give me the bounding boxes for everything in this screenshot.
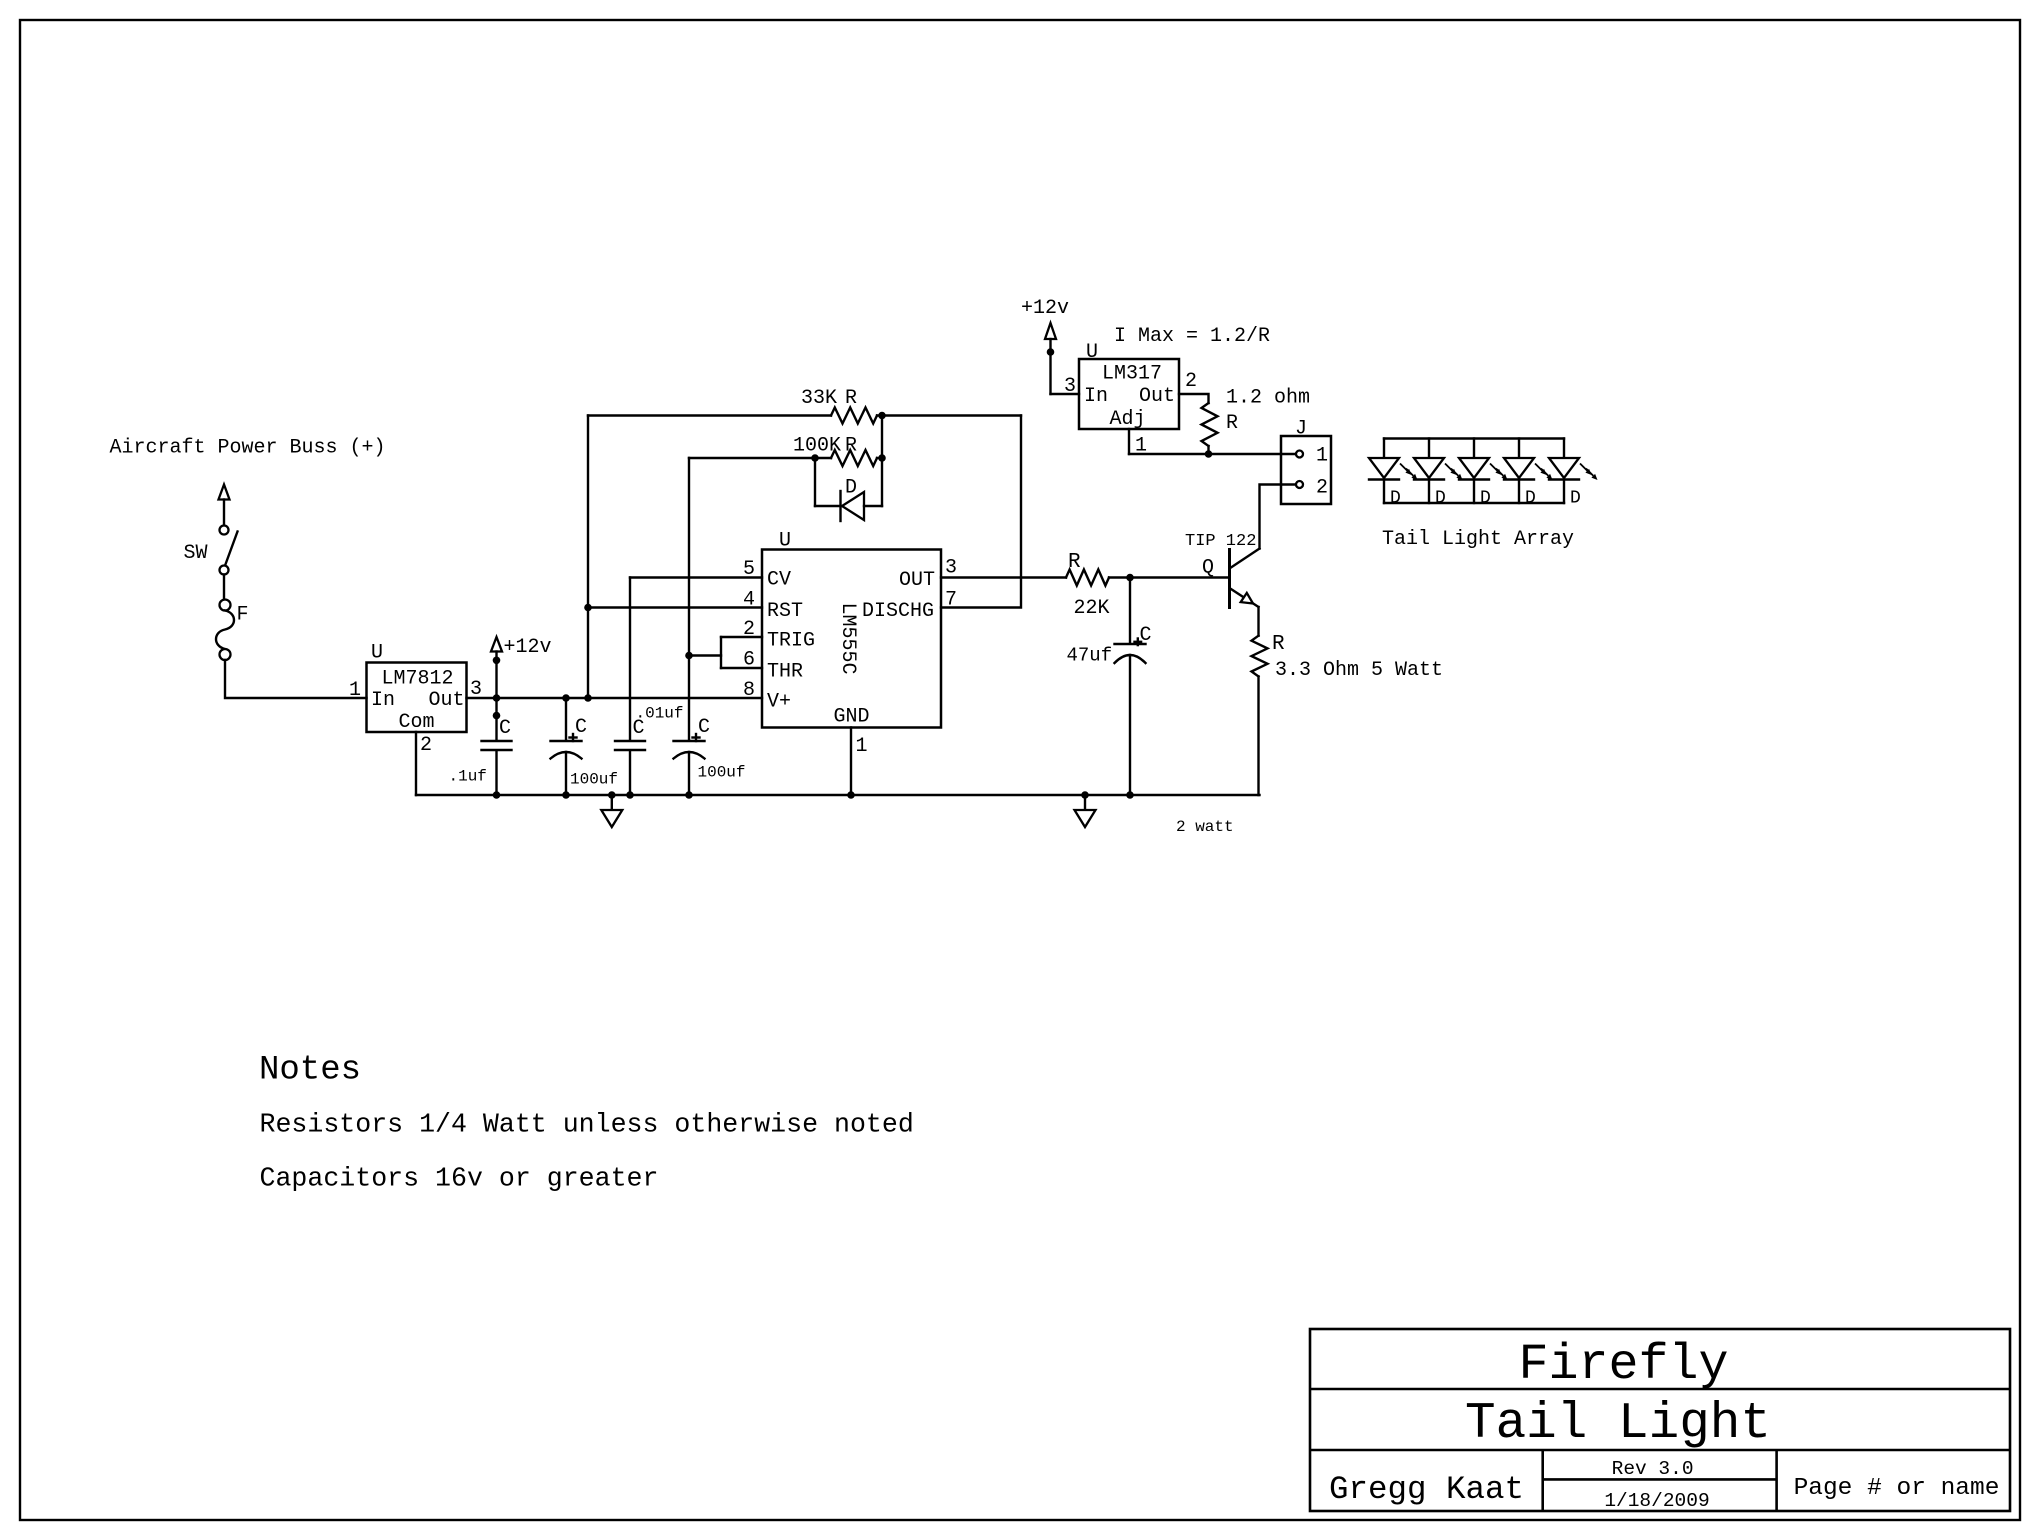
junction .1uf at rail: [493, 791, 501, 799]
wire: DISCHG to resistor leg: [941, 416, 1021, 608]
junction TRIG/THR tee: [685, 652, 693, 660]
resistor R 33K: [588, 387, 1021, 424]
wire: bracket tee to timing cap: [689, 654, 721, 656]
svg-text:47uf: 47uf: [1067, 645, 1113, 667]
fuse F: [216, 600, 249, 661]
wire: +12v to LM317 In: [1051, 393, 1080, 395]
svg-text:D: D: [1570, 489, 1581, 509]
wire: TRIG/THR bracket: [720, 637, 722, 668]
resistor R 100K: [689, 435, 882, 467]
wire: 22K to transistor base: [1109, 576, 1228, 578]
wire: 3.3 ohm to ground rail: [1257, 677, 1259, 796]
wire: 33K left leg down to +12v rail: [587, 416, 589, 699]
svg-text:C: C: [698, 716, 710, 739]
capacitor C .1uf: [449, 698, 512, 795]
svg-text:C: C: [499, 717, 511, 740]
power arrow (aircraft buss input): [219, 485, 230, 526]
svg-text:33K: 33K: [801, 387, 837, 410]
svg-text:Capacitors 16v or greater: Capacitors 16v or greater: [260, 1164, 659, 1194]
wire: switch to fuse: [223, 575, 225, 600]
wire: emitter to 3.3 ohm: [1257, 607, 1259, 636]
svg-text:Notes: Notes: [259, 1052, 361, 1090]
svg-text:LM317: LM317: [1102, 363, 1162, 386]
svg-text:1/18/2009: 1/18/2009: [1604, 1490, 1709, 1512]
connector J: [1281, 418, 1331, 505]
junction RST tee: [584, 604, 592, 612]
svg-text:100uf: 100uf: [698, 764, 746, 782]
svg-text:D: D: [1525, 489, 1536, 509]
svg-text:D: D: [845, 477, 857, 500]
wire: RST pin: [588, 606, 762, 608]
svg-text:V+: V+: [767, 691, 791, 714]
svg-text:I Max = 1.2/R: I Max = 1.2/R: [1114, 325, 1270, 348]
svg-text:8: 8: [743, 679, 755, 702]
power symbol +12v (at regulator output): [491, 636, 552, 698]
svg-text:3.3 Ohm 5 Watt: 3.3 Ohm 5 Watt: [1275, 659, 1443, 682]
svg-text:Tail Light Array: Tail Light Array: [1382, 528, 1574, 551]
svg-text:Adj: Adj: [1109, 408, 1145, 431]
svg-text:In: In: [371, 689, 395, 712]
capacitor C 47uf: [1067, 578, 1152, 796]
wire: Adj node to J pin 1: [1129, 453, 1296, 455]
svg-text:U: U: [1086, 341, 1098, 364]
svg-text:Resistors 1/4 Watt unless othe: Resistors 1/4 Watt unless otherwise note…: [260, 1110, 914, 1140]
wire: 33K/100K/diode right leg: [881, 416, 883, 507]
wire: LM7812 Out to 555 V+ (+12v rail): [467, 697, 763, 699]
title block frame: [1310, 1329, 2010, 1511]
wire: LM317 Adj down: [1128, 429, 1130, 454]
wire: LED array top bus: [1384, 437, 1564, 439]
svg-text:LM7812: LM7812: [382, 668, 454, 691]
ground symbol (right): [1075, 795, 1096, 827]
svg-text:SW: SW: [184, 542, 208, 565]
regulator U LM7812: [367, 642, 467, 735]
junction 100K left (diode tee): [811, 454, 819, 462]
wire: THR pin: [721, 667, 762, 669]
power symbol +12v (LM317 input): [1021, 297, 1069, 394]
junction Adj / 1.2 ohm: [1205, 450, 1213, 458]
svg-text:.01uf: .01uf: [636, 705, 684, 723]
svg-text:3: 3: [945, 557, 957, 580]
svg-text:THR: THR: [767, 661, 803, 684]
junction 47uf at rail: [1126, 791, 1134, 799]
svg-text:F: F: [237, 604, 249, 627]
resistor R 1.2 ohm: [1202, 387, 1311, 447]
svg-text:Com: Com: [399, 711, 435, 734]
svg-text:Tail Light: Tail Light: [1465, 1396, 1771, 1453]
svg-text:Rev 3.0: Rev 3.0: [1612, 1458, 1694, 1480]
svg-text:.1uf: .1uf: [449, 768, 487, 786]
svg-text:Out: Out: [1139, 385, 1175, 408]
svg-text:R: R: [1226, 412, 1238, 435]
svg-text:R: R: [1272, 633, 1285, 656]
svg-text:D: D: [1480, 489, 1491, 509]
wire: LED array bottom bus: [1384, 502, 1564, 504]
capacitor C 100uf (first, polarized): [551, 698, 619, 795]
junction ground stub right: [1081, 791, 1089, 799]
wire: LM7812 Com down to ground rail: [415, 732, 417, 795]
svg-text:2 watt: 2 watt: [1176, 818, 1234, 836]
svg-text:LM555C: LM555C: [836, 602, 859, 674]
junction .01uf at rail: [626, 791, 634, 799]
junction 22K / 47uf: [1126, 574, 1134, 582]
capacitor C .01uf: [615, 578, 684, 796]
svg-text:2: 2: [1185, 370, 1197, 393]
svg-text:1: 1: [349, 679, 361, 702]
svg-text:Q: Q: [1202, 557, 1214, 580]
svg-text:+12v: +12v: [504, 636, 552, 659]
svg-text:TIP 122: TIP 122: [1185, 532, 1256, 551]
svg-text:D: D: [1435, 489, 1446, 509]
wire: 1.2 ohm bottom to Adj node: [1207, 446, 1209, 454]
svg-text:In: In: [1084, 385, 1108, 408]
svg-text:GND: GND: [833, 706, 869, 729]
wire: LM317 Out to 1.2 ohm: [1179, 394, 1209, 403]
switch SW: [184, 526, 238, 575]
svg-text:+12v: +12v: [1021, 297, 1069, 320]
svg-text:Page # or name: Page # or name: [1794, 1475, 2000, 1502]
LED D5: [1549, 439, 1598, 509]
svg-text:22K: 22K: [1074, 597, 1110, 620]
wire: TRIG pin: [721, 636, 762, 638]
junction 33K leg at +12v rail: [584, 694, 592, 702]
svg-text:3: 3: [1064, 375, 1076, 398]
LED D2: [1414, 439, 1463, 509]
svg-text:RST: RST: [767, 600, 803, 623]
wire: CV pin: [630, 576, 762, 578]
resistor R 22K: [1066, 551, 1110, 620]
junction below +12v arrow (LM317): [1047, 348, 1055, 356]
junction below +12v arrow: [493, 657, 501, 665]
junction 100uf#1 at +12v rail: [562, 694, 570, 702]
junction 33K right: [878, 412, 886, 420]
junction ground stub left: [608, 791, 616, 799]
svg-text:C: C: [1140, 624, 1152, 647]
junction at Out tee: [493, 694, 501, 702]
resistor R 3.3 Ohm 5 Watt: [1252, 633, 1444, 682]
svg-text:Aircraft Power Buss (+): Aircraft Power Buss (+): [110, 437, 386, 460]
svg-text:TRIG: TRIG: [767, 630, 815, 653]
svg-text:D: D: [1390, 489, 1401, 509]
svg-text:1: 1: [856, 735, 868, 758]
svg-text:CV: CV: [767, 569, 791, 592]
svg-text:1: 1: [1316, 445, 1328, 468]
svg-text:2: 2: [1316, 477, 1328, 500]
svg-text:1.2 ohm: 1.2 ohm: [1226, 387, 1310, 410]
wire: ground rail: [416, 794, 1260, 796]
wire: fuse to LM7812 In: [225, 660, 367, 698]
junction GND pin at rail: [847, 791, 855, 799]
timer U LM555C: [762, 530, 941, 729]
LED D1: [1369, 439, 1418, 509]
LED D3: [1459, 439, 1508, 509]
svg-text:C: C: [575, 716, 587, 739]
regulator U LM317: [1079, 341, 1179, 431]
svg-text:2: 2: [420, 734, 432, 757]
svg-text:Out: Out: [429, 689, 465, 712]
wire: collector to J pin 2: [1260, 485, 1297, 549]
svg-text:Firefly: Firefly: [1518, 1337, 1728, 1394]
svg-text:OUT: OUT: [899, 569, 935, 592]
capacitor C 100uf (second, polarized, timing): [674, 458, 746, 795]
junction 100uf#2 at rail: [685, 791, 693, 799]
wire: 555 OUT to 22K: [941, 576, 1066, 578]
wire: GND pin to rail: [850, 728, 852, 796]
transistor Q TIP 122: [1185, 532, 1260, 609]
svg-text:100uf: 100uf: [570, 771, 618, 789]
diode D: [815, 458, 882, 521]
svg-text:U: U: [371, 642, 383, 665]
junction above C .1uf: [493, 712, 501, 720]
LED D4: [1504, 439, 1553, 509]
svg-text:Gregg Kaat: Gregg Kaat: [1329, 1471, 1524, 1508]
ground symbol (left): [601, 795, 622, 827]
junction 100uf#1 at ground rail: [562, 791, 570, 799]
junction 100K right: [878, 454, 886, 462]
svg-text:DISCHG: DISCHG: [862, 600, 934, 623]
